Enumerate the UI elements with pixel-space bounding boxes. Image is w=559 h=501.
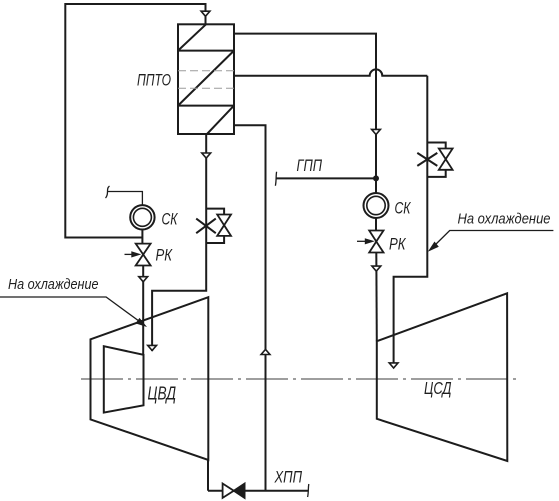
wire: XPP line <box>208 490 308 492</box>
valve: check valve on XPP <box>223 484 245 498</box>
svg-text:РК: РК <box>156 247 174 265</box>
wire: CSD cooling line down into turbine <box>394 76 428 368</box>
wire: PPTO outlet 2 to right gate valve (with hop over outlet1 line) <box>234 69 427 75</box>
valve: control valve RK (left) <box>136 244 151 266</box>
svg-text:На охлаждение: На охлаждение <box>8 277 99 293</box>
valve: stop valve SK (left) <box>130 205 154 229</box>
wire: PPTO outlet 1 down to GPP junction <box>234 34 376 179</box>
actuator arrow into RK right <box>357 240 366 242</box>
GPP line tick <box>275 172 276 186</box>
svg-text:СК: СК <box>162 211 179 229</box>
valve: bypass control valve (right) <box>427 143 452 177</box>
turbine CVD inner casing <box>104 346 144 412</box>
svg-text:ЦВД: ЦВД <box>148 384 177 404</box>
heat exchanger PPTO <box>178 24 234 134</box>
wire: SK to RK (right) <box>375 218 377 231</box>
arrow below PPTO <box>202 153 211 158</box>
vent line from SK left <box>107 192 142 206</box>
arrow into PPTO top <box>201 11 210 16</box>
valve: closed gate (X) on CVD cooling line <box>196 219 216 234</box>
valve: closed gate (X) on CSD cooling line <box>417 153 437 166</box>
wire: PPTO bottom outlet down (CVD cooling) <box>152 134 206 351</box>
arrow into CSD <box>389 363 398 368</box>
arrow into CVD (cooling) <box>148 345 157 350</box>
svg-text:СК: СК <box>395 200 412 218</box>
wire: junction to SK right <box>375 178 377 193</box>
arrow below RK left <box>139 277 148 282</box>
svg-text:РК: РК <box>389 236 407 254</box>
arrow on outlet1 line <box>372 129 381 134</box>
centerline (turbine shaft axis) <box>81 378 517 380</box>
svg-text:ГПП: ГПП <box>297 156 323 175</box>
wire: SK to RK (left) <box>141 230 143 244</box>
valve: bypass control valve (left) <box>206 209 231 243</box>
actuator arrow into RK left <box>125 253 134 255</box>
valve: stop valve SK (right) <box>364 193 389 218</box>
wire: RK down into CVD inner casing <box>142 266 144 355</box>
node: GPP junction <box>373 175 379 181</box>
vent end tick <box>106 186 110 198</box>
wire: CVD extraction loop to PPTO top <box>65 4 205 238</box>
arrow below RK right <box>372 266 381 271</box>
turbine CVD outer casing <box>91 297 209 460</box>
svg-text:ЦСД: ЦСД <box>424 378 452 398</box>
wire: GPP line <box>276 177 376 179</box>
XPP end tick <box>308 484 309 497</box>
turbine CSD casing <box>377 293 508 461</box>
valve: control valve RK (right) <box>369 231 383 253</box>
wire: PPTO outlet 3 down to XPP line <box>234 125 266 490</box>
svg-text:На охлаждение: На охлаждение <box>458 212 551 228</box>
arrow up toward PPTO <box>261 349 270 354</box>
svg-text:ХПП: ХПП <box>274 468 303 487</box>
wire: RK right down into CSD <box>375 253 378 342</box>
svg-text:ППТО: ППТО <box>137 71 171 90</box>
wire: CVD exhaust down to XPP line <box>207 460 209 491</box>
